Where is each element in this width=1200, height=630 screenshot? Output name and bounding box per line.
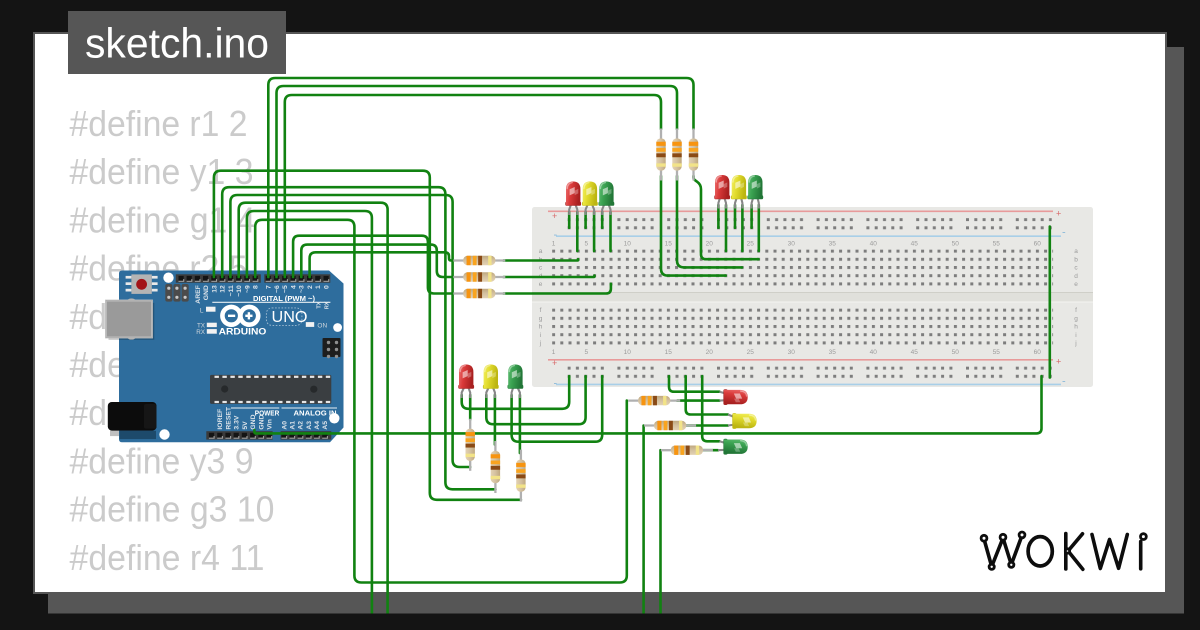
svg-text:RESET: RESET xyxy=(225,406,232,430)
svg-text:8: 8 xyxy=(253,285,260,289)
svg-text:f: f xyxy=(540,307,542,314)
svg-text:b: b xyxy=(1074,256,1078,263)
svg-text:-: - xyxy=(1062,376,1066,388)
svg-text:3.3V: 3.3V xyxy=(234,415,241,429)
svg-text:5: 5 xyxy=(584,241,588,248)
svg-text:-: - xyxy=(1062,227,1066,239)
svg-text:a: a xyxy=(1074,248,1078,255)
svg-text:A5: A5 xyxy=(322,421,329,430)
svg-text:RX: RX xyxy=(196,329,206,336)
svg-text:+: + xyxy=(1056,209,1061,219)
svg-text:12: 12 xyxy=(220,285,227,293)
svg-text:5: 5 xyxy=(584,349,588,356)
svg-text:-: - xyxy=(554,378,558,390)
svg-text:#define r4 11: #define r4 11 xyxy=(70,537,265,578)
svg-text:1: 1 xyxy=(552,349,556,356)
svg-text:g: g xyxy=(1074,315,1078,322)
svg-text:~9: ~9 xyxy=(244,285,251,293)
svg-text:45: 45 xyxy=(911,241,919,248)
svg-text:~6: ~6 xyxy=(274,285,281,293)
svg-text:15: 15 xyxy=(665,241,673,248)
svg-text:10: 10 xyxy=(624,241,632,248)
svg-text:10: 10 xyxy=(624,349,632,356)
svg-text:A2: A2 xyxy=(298,421,305,430)
svg-text:j: j xyxy=(539,340,541,347)
svg-text:30: 30 xyxy=(788,241,796,248)
svg-text:#define g3 10: #define g3 10 xyxy=(70,489,275,530)
svg-text:~3: ~3 xyxy=(299,285,306,293)
svg-text:4: 4 xyxy=(291,285,298,289)
svg-text:1: 1 xyxy=(315,285,322,289)
svg-text:i: i xyxy=(540,332,541,339)
svg-text:j: j xyxy=(1074,340,1076,347)
svg-text:a: a xyxy=(539,248,543,255)
svg-text:+: + xyxy=(552,358,557,368)
svg-text:1: 1 xyxy=(552,241,556,248)
svg-text:20: 20 xyxy=(706,349,714,356)
svg-text:e: e xyxy=(539,281,543,288)
svg-text:A1: A1 xyxy=(289,421,296,430)
svg-text:45: 45 xyxy=(911,349,919,356)
svg-text:55: 55 xyxy=(993,349,1001,356)
svg-text:Vin: Vin xyxy=(267,419,274,429)
svg-text:GND: GND xyxy=(203,285,210,300)
svg-text:A4: A4 xyxy=(314,421,321,430)
svg-text:55: 55 xyxy=(993,241,1001,248)
svg-text:A0: A0 xyxy=(281,421,288,430)
svg-text:13: 13 xyxy=(211,285,218,293)
svg-text:~5: ~5 xyxy=(282,285,289,293)
svg-text:50: 50 xyxy=(952,241,960,248)
svg-text:POWER: POWER xyxy=(255,409,280,418)
svg-text:h: h xyxy=(1074,324,1078,331)
svg-text:#define y3 9: #define y3 9 xyxy=(70,440,254,481)
svg-text:25: 25 xyxy=(747,349,755,356)
svg-text:ARDUINO: ARDUINO xyxy=(219,326,267,337)
svg-text:f: f xyxy=(1075,307,1077,314)
svg-text:35: 35 xyxy=(829,241,837,248)
svg-text:2: 2 xyxy=(307,285,314,289)
svg-text:UNO: UNO xyxy=(272,309,308,326)
svg-text:AREF: AREF xyxy=(195,285,202,304)
svg-text:d: d xyxy=(1074,273,1078,280)
svg-text:-: - xyxy=(554,229,558,241)
svg-text:20: 20 xyxy=(706,241,714,248)
svg-text:60: 60 xyxy=(1034,349,1042,356)
svg-text:5V: 5V xyxy=(242,421,249,430)
svg-text:15: 15 xyxy=(665,349,673,356)
svg-text:50: 50 xyxy=(952,349,960,356)
svg-text:~10: ~10 xyxy=(236,285,243,297)
svg-text:0: 0 xyxy=(324,285,331,289)
svg-text:7: 7 xyxy=(266,285,273,289)
svg-text:+: + xyxy=(1056,357,1061,367)
svg-text:60: 60 xyxy=(1034,241,1042,248)
svg-text:+: + xyxy=(552,211,557,221)
svg-text:L: L xyxy=(200,308,204,315)
svg-text:ON: ON xyxy=(317,323,327,330)
svg-text:35: 35 xyxy=(829,349,837,356)
svg-text:h: h xyxy=(539,324,543,331)
svg-text:25: 25 xyxy=(747,241,755,248)
svg-text:~11: ~11 xyxy=(228,285,235,296)
svg-text:#define g1 4: #define g1 4 xyxy=(70,199,256,240)
svg-text:40: 40 xyxy=(870,349,878,356)
svg-text:30: 30 xyxy=(788,349,796,356)
svg-text:40: 40 xyxy=(870,241,878,248)
svg-text:DIGITAL (PWM ~): DIGITAL (PWM ~) xyxy=(253,294,315,303)
svg-text:IOREF: IOREF xyxy=(217,409,224,430)
svg-text:e: e xyxy=(1074,281,1078,288)
svg-text:g: g xyxy=(539,315,543,322)
svg-text:A3: A3 xyxy=(306,421,313,430)
svg-text:i: i xyxy=(1075,332,1076,339)
svg-text:#define r1 2: #define r1 2 xyxy=(70,103,248,144)
svg-text:sketch.ino: sketch.ino xyxy=(85,20,269,67)
